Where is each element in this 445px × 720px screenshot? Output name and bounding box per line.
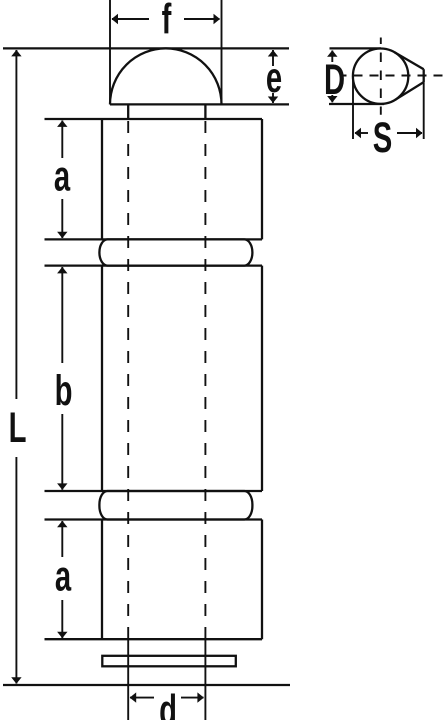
svg-text:e: e — [266, 53, 282, 101]
L arrow down — [11, 677, 21, 684]
L dimension line — [15, 50, 17, 399]
D arrow up — [327, 50, 337, 57]
d extension line left — [127, 639, 129, 720]
b dimension line — [61, 267, 63, 363]
f extension line left — [109, 0, 111, 104]
b arrow up — [57, 267, 67, 274]
a2 dimension line — [61, 521, 63, 557]
f arrow left — [112, 14, 119, 24]
top boundary line — [3, 47, 289, 49]
section 1 bottom line — [45, 238, 263, 240]
svg-text:d: d — [159, 686, 177, 720]
D extension top line — [330, 47, 382, 49]
bottom plate — [102, 656, 236, 667]
dashed centerline left — [127, 121, 129, 639]
groove bulge 2 — [99, 491, 252, 520]
detail vertical centerline — [380, 38, 382, 115]
a2 arrow up — [57, 521, 67, 528]
svg-text:a: a — [54, 152, 71, 200]
svg-text:b: b — [55, 366, 73, 414]
svg-text:S: S — [373, 113, 392, 161]
svg-text:f: f — [162, 0, 172, 43]
detail tab flat tip — [423, 69, 425, 82]
section 3 bottom line — [45, 638, 263, 640]
e arrow up — [268, 50, 278, 57]
detail tab top tangent — [395, 52, 424, 69]
D arrow down — [327, 96, 337, 103]
S arrow left — [355, 128, 362, 138]
head base line — [110, 103, 289, 105]
e arrow down — [268, 97, 278, 104]
a1 dimension line — [61, 121, 63, 159]
section 1 left edge — [101, 119, 103, 239]
d arrow left — [130, 692, 137, 702]
section 1 right edge — [261, 119, 263, 239]
pin visible neck right — [204, 104, 206, 119]
S extension line left — [352, 80, 354, 139]
detail horizontal centerline — [343, 75, 444, 77]
section 2 bottom line — [45, 490, 263, 492]
S extension line right — [423, 82, 425, 139]
D dimension line — [331, 51, 333, 63]
head dome — [110, 48, 222, 104]
section 2 top line — [45, 264, 263, 266]
f extension line right — [221, 0, 223, 104]
section 1 top line — [45, 118, 263, 120]
bottom boundary line — [3, 684, 290, 686]
d arrow right — [197, 692, 204, 702]
svg-text:a: a — [55, 552, 72, 600]
b arrow down — [57, 483, 67, 490]
svg-text:D: D — [324, 55, 345, 103]
S dimension line — [355, 132, 368, 134]
f arrow right — [214, 14, 221, 24]
D extension bottom line — [329, 103, 384, 105]
e dimension line — [272, 50, 274, 66]
section 3 top line — [45, 518, 263, 520]
pin visible neck left — [127, 104, 129, 119]
d extension line right — [204, 639, 206, 720]
detail circle — [353, 48, 408, 103]
a2 arrow down — [57, 632, 67, 639]
a1 arrow up — [57, 120, 67, 127]
dashed centerline right — [204, 121, 206, 639]
section 2 right edge — [261, 266, 263, 491]
section 3 right edge — [261, 520, 263, 640]
svg-text:L: L — [9, 403, 27, 451]
section 3 left edge — [101, 520, 103, 640]
d dimension line — [130, 697, 154, 699]
section 2 left edge — [101, 266, 103, 491]
detail tab bottom tangent — [395, 82, 424, 100]
groove bulge 1 — [99, 239, 252, 265]
f dimension line — [112, 18, 149, 20]
S arrow right — [416, 128, 423, 138]
a1 arrow down — [57, 232, 67, 239]
L arrow up — [11, 50, 21, 57]
